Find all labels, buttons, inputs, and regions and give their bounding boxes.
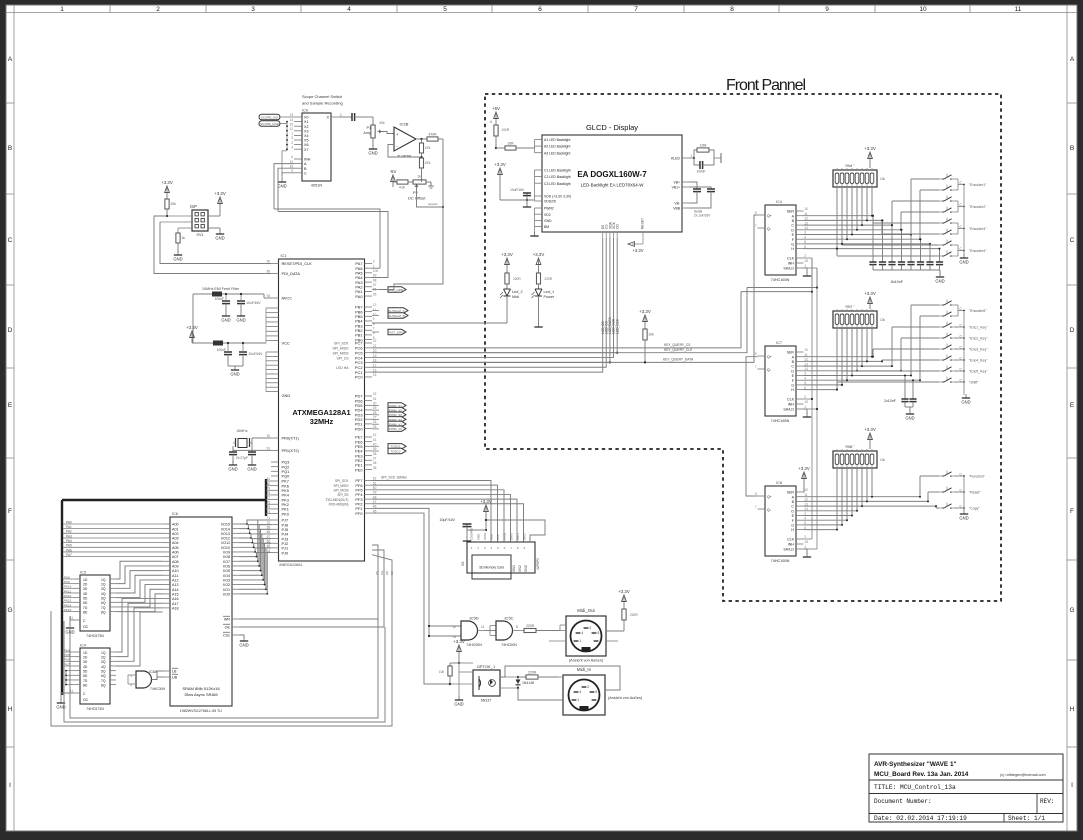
svg-text:C: C xyxy=(791,505,794,509)
svg-text:TOSC2: TOSC2 xyxy=(390,449,401,453)
MCU left VCC pin cluster xyxy=(266,307,279,309)
IC4 parallel input pins right xyxy=(796,210,804,212)
svg-text:1G: 1G xyxy=(380,570,384,575)
svg-text:31: 31 xyxy=(373,397,377,401)
svg-text:8Q: 8Q xyxy=(101,683,106,687)
serial data chain Q to SER xyxy=(746,357,758,496)
svg-text:1: 1 xyxy=(579,639,581,643)
resistor 4.0k to P2 xyxy=(397,180,408,184)
svg-text:5D: 5D xyxy=(83,669,88,673)
svg-text:3: 3 xyxy=(599,639,601,643)
svg-text:VB+: VB+ xyxy=(673,181,680,185)
ground P1 xyxy=(372,145,374,149)
WR OE long wires to MCU xyxy=(240,545,379,619)
svg-text:220R: 220R xyxy=(545,277,553,281)
svg-text:36: 36 xyxy=(373,461,377,465)
IC7 parallel input pins right xyxy=(796,351,804,353)
charge pump capacitors 2x1uF xyxy=(690,182,698,189)
svg-text:H: H xyxy=(791,528,794,532)
svg-text:X5: X5 xyxy=(304,139,309,143)
svg-text:GND: GND xyxy=(282,393,291,398)
svg-text:X0: X0 xyxy=(304,116,309,120)
svg-text:+3.3V: +3.3V xyxy=(798,466,810,471)
svg-text:10MHz EMI Ferrit Filter: 10MHz EMI Ferrit Filter xyxy=(202,287,240,291)
latch IC4 74HC573N box xyxy=(80,648,110,704)
svg-text:GND: GND xyxy=(247,466,256,471)
svg-text:+3.3V: +3.3V xyxy=(186,325,198,330)
svg-text:AVR-Synthesizer "WAVE 1": AVR-Synthesizer "WAVE 1" xyxy=(874,761,957,768)
svg-text:+3.3V: +3.3V xyxy=(453,639,465,644)
svg-text:IC4: IC4 xyxy=(776,200,782,204)
svg-text:D: D xyxy=(791,369,794,373)
svg-text:6: 6 xyxy=(291,155,293,159)
svg-text:4Q: 4Q xyxy=(101,665,106,669)
svg-text:3Q: 3Q xyxy=(101,660,106,664)
svg-text:CD/DAT3: CD/DAT3 xyxy=(470,528,474,540)
MCU right PB pins xyxy=(365,306,373,308)
svg-text:P2: P2 xyxy=(413,190,419,195)
switch common rail IC8 xyxy=(957,475,959,477)
svg-text:VDD: VDD xyxy=(490,534,494,540)
svg-text:LED HA: LED HA xyxy=(336,366,349,370)
SD card socket X3 xyxy=(467,542,535,573)
thick data bus PK xyxy=(62,499,266,501)
P2 DC offset potentiometer xyxy=(413,180,426,184)
svg-text:SPI_MOSI: SPI_MOSI xyxy=(332,351,348,355)
+5V backlight supply xyxy=(495,114,497,124)
svg-text:7: 7 xyxy=(634,6,638,13)
svg-text:6D: 6D xyxy=(83,601,88,605)
svg-text:CLK: CLK xyxy=(496,534,500,540)
svg-text:KEY_QUERY_DATA: KEY_QUERY_DATA xyxy=(663,357,694,361)
wire KEY_QUERY_CS xyxy=(372,292,741,348)
svg-text:25: 25 xyxy=(373,425,377,429)
svg-text:A07: A07 xyxy=(172,555,179,559)
latch IC3 outputs to SRAM A08-A15 staircase xyxy=(116,561,163,579)
svg-text:WR: WR xyxy=(224,618,230,622)
svg-text:IC4: IC4 xyxy=(80,644,86,648)
svg-text:SW2: SW2 xyxy=(518,565,522,572)
svg-text:A16: A16 xyxy=(172,597,179,601)
svg-text:(c) rolfdegen@hotmail.com: (c) rolfdegen@hotmail.com xyxy=(1000,773,1046,777)
svg-text:DC Offset: DC Offset xyxy=(408,196,426,201)
svg-text:X3: X3 xyxy=(304,129,309,133)
svg-text:REV:: REV: xyxy=(1040,798,1054,805)
IC9 control pins INH A B C xyxy=(294,158,302,160)
svg-text:PK7: PK7 xyxy=(64,662,70,666)
+3.3V for RN4 xyxy=(869,154,871,164)
svg-text:I/O7: I/O7 xyxy=(223,560,230,564)
svg-text:AUTELM_B: AUTELM_B xyxy=(388,314,404,318)
svg-text:41: 41 xyxy=(373,438,377,442)
svg-text:1k: 1k xyxy=(417,175,421,179)
MCU right PF pins xyxy=(365,480,373,482)
switches IC4 xyxy=(942,178,944,180)
svg-text:"Enc2_Key": "Enc2_Key" xyxy=(969,336,988,340)
svg-text:"Encoder4": "Encoder4" xyxy=(969,249,987,253)
svg-text:RESET: RESET xyxy=(641,218,645,229)
svg-text:GND: GND xyxy=(277,183,286,188)
GLCD bottom data pins xyxy=(602,232,604,238)
svg-text:OC: OC xyxy=(83,698,89,702)
svg-text:PA6: PA6 xyxy=(66,548,72,552)
svg-text:GND: GND xyxy=(239,642,248,647)
svg-text:SER: SER xyxy=(787,491,795,495)
switch feed verticals IC4 xyxy=(910,179,912,235)
svg-text:GND: GND xyxy=(173,256,182,261)
svg-text:32: 32 xyxy=(373,392,377,396)
svg-text:1: 1 xyxy=(60,6,64,13)
svg-text:"Enc4_Key": "Enc4_Key" xyxy=(969,358,988,362)
svg-text:A13: A13 xyxy=(172,583,179,587)
long wire MCU TXD to MIDI gates xyxy=(372,508,461,626)
resistor network RN4 xyxy=(833,170,877,187)
svg-text:10: 10 xyxy=(804,348,808,352)
svg-text:RESET/PDI_CLK: RESET/PDI_CLK xyxy=(282,261,313,266)
svg-text:15: 15 xyxy=(290,122,294,126)
svg-text:I/O12: I/O12 xyxy=(221,537,230,541)
svg-text:GND: GND xyxy=(959,259,968,264)
svg-text:A01: A01 xyxy=(172,527,179,531)
svg-text:16MHz: 16MHz xyxy=(236,429,248,433)
svg-text:G: G xyxy=(1069,607,1074,614)
shift register IC8 74HC165N box xyxy=(765,486,796,556)
capacitor C_vcc2 10uF xyxy=(239,351,247,353)
svg-text:+3.3V: +3.3V xyxy=(533,252,545,257)
svg-text:7: 7 xyxy=(755,365,757,369)
+3.3V SD supply xyxy=(485,507,487,517)
IC8 control pins xyxy=(796,538,804,540)
svg-text:10k: 10k xyxy=(880,177,886,181)
svg-text:UB: UB xyxy=(172,676,178,680)
MCU right PE pins xyxy=(365,436,373,438)
svg-text:X6: X6 xyxy=(304,143,309,147)
IC9 A B C wires to port xyxy=(274,164,294,209)
RN4 legs down to rows (reverse staircase) xyxy=(836,187,838,249)
svg-text:2x 1uF/16V: 2x 1uF/16V xyxy=(694,214,711,218)
GLCD left pins A1-A3 backlight xyxy=(535,139,543,141)
IC7 ground xyxy=(804,409,808,414)
svg-text:P1: P1 xyxy=(366,126,371,130)
svg-text:1D: 1D xyxy=(83,651,88,655)
svg-text:INH: INH xyxy=(788,543,795,547)
svg-text:220R: 220R xyxy=(513,277,521,281)
crystal load capacitors 2x27pF xyxy=(232,446,234,452)
svg-text:10µF/16V: 10µF/16V xyxy=(439,518,455,522)
svg-text:11: 11 xyxy=(373,308,377,312)
opto input wires xyxy=(459,662,473,664)
svg-text:A: A xyxy=(8,56,13,63)
svg-text:3: 3 xyxy=(597,698,599,702)
svg-text:H: H xyxy=(8,706,13,713)
svg-text:I/O2: I/O2 xyxy=(223,583,230,587)
svg-text:I/O9: I/O9 xyxy=(223,551,230,555)
latch IC3 ground xyxy=(70,620,74,625)
resistor R_pdi 1k xyxy=(177,228,179,233)
svg-text:8x10nF: 8x10nF xyxy=(891,280,904,284)
svg-text:C: C xyxy=(1070,237,1075,244)
svg-text:+3.3V: +3.3V xyxy=(501,252,513,257)
SRAM data pins IO15-IO0 xyxy=(232,523,240,525)
svg-text:74HC573N: 74HC573N xyxy=(86,634,104,638)
svg-text:Midi_Out: Midi_Out xyxy=(577,608,595,613)
svg-text:74HC573N: 74HC573N xyxy=(86,707,104,711)
SRAM address pins A00-A18 xyxy=(163,523,171,525)
feedback tap to inverting input xyxy=(388,145,422,158)
svg-text:I: I xyxy=(9,782,11,789)
svg-text:7D: 7D xyxy=(83,679,88,683)
svg-text:IC7: IC7 xyxy=(776,341,782,345)
svg-text:+3.3V: +3.3V xyxy=(618,589,630,594)
capacitor bank verticals IC7 xyxy=(904,376,906,400)
svg-text:97: 97 xyxy=(373,283,377,287)
svg-text:PK9: PK9 xyxy=(64,580,70,584)
svg-text:74HC165N: 74HC165N xyxy=(771,419,790,423)
svg-text:Front Pannel: Front Pannel xyxy=(726,77,806,94)
-5V supply arrow xyxy=(392,177,394,187)
svg-text:4Q: 4Q xyxy=(101,592,106,596)
svg-text:E: E xyxy=(8,402,13,409)
svg-text:4D: 4D xyxy=(83,665,88,669)
svg-text:26: 26 xyxy=(373,420,377,424)
IC8 parallel input pins right xyxy=(796,491,804,493)
svg-text:A18: A18 xyxy=(172,606,179,610)
svg-text:OE: OE xyxy=(225,626,231,630)
svg-text:47k: 47k xyxy=(425,146,431,150)
MIDI out right pin wires xyxy=(606,640,618,642)
latch IC4 ground xyxy=(61,693,74,700)
svg-text:10k: 10k xyxy=(880,318,886,322)
svg-text:2Q: 2Q xyxy=(101,655,106,659)
svg-text:"Shift": "Shift" xyxy=(969,380,979,384)
svg-text:"Encoder2": "Encoder2" xyxy=(969,205,987,209)
svg-text:11: 11 xyxy=(481,625,485,629)
svg-text:CD: CD xyxy=(616,224,620,229)
svg-text:+3.3V: +3.3V xyxy=(480,499,492,504)
svg-text:8Q: 8Q xyxy=(101,610,106,614)
svg-text:F: F xyxy=(1070,508,1074,515)
IC8 ground xyxy=(804,549,808,554)
svg-text:74HC165N: 74HC165N xyxy=(771,559,790,563)
IC9 unused input rail to GND xyxy=(286,122,288,151)
resistor 10k opto xyxy=(450,662,459,664)
ground for AVCC caps xyxy=(225,312,227,316)
NAND gate IC8A 74HC00N xyxy=(136,671,152,688)
svg-text:37: 37 xyxy=(373,456,377,460)
svg-text:INH: INH xyxy=(788,262,795,266)
svg-text:A3 LED Backlight: A3 LED Backlight xyxy=(544,151,570,155)
svg-text:1k: 1k xyxy=(181,236,185,240)
GLCD left pins VDD xyxy=(535,195,543,197)
bus taps to MCU PK pins xyxy=(266,480,271,482)
RN8 legs down to rows (reverse staircase) xyxy=(836,468,838,530)
svg-text:27: 27 xyxy=(373,415,377,419)
svg-text:1: 1 xyxy=(291,132,293,136)
RC network on KLED: 10M resistor xyxy=(694,150,697,158)
MIDI in wires xyxy=(558,676,563,678)
svg-text:SH/LD: SH/LD xyxy=(783,408,794,412)
svg-text:H: H xyxy=(791,247,794,251)
svg-text:2Q: 2Q xyxy=(101,582,106,586)
svg-text:GND: GND xyxy=(935,278,944,283)
svg-text:SCOPE_GND: SCOPE_GND xyxy=(260,122,280,126)
svg-text:IC3: IC3 xyxy=(80,571,86,575)
svg-text:PA4: PA4 xyxy=(66,539,72,543)
svg-text:MCU_Board Rev. 13a Jan. 2014: MCU_Board Rev. 13a Jan. 2014 xyxy=(874,771,969,778)
svg-text:F: F xyxy=(8,508,12,515)
svg-text:SPI_SCK: SPI_SCK xyxy=(334,342,349,346)
svg-text:D: D xyxy=(791,228,794,232)
ground for VCC caps xyxy=(228,365,243,367)
svg-text:LB: LB xyxy=(172,670,177,674)
svg-text:29: 29 xyxy=(373,406,377,410)
feedback resistor 47k upper xyxy=(419,143,423,153)
svg-text:6Q: 6Q xyxy=(101,601,106,605)
svg-text:PK4: PK4 xyxy=(64,648,70,652)
svg-text:6: 6 xyxy=(538,6,542,13)
svg-text:SPI_SS: SPI_SS xyxy=(337,493,348,497)
svg-text:4: 4 xyxy=(291,145,293,149)
svg-text:39: 39 xyxy=(373,447,377,451)
IC4 wire rows xyxy=(804,215,874,217)
svg-text:GND: GND xyxy=(215,235,224,240)
Front Pannel dashed boundary xyxy=(485,94,1001,601)
svg-text:A2 LED Backlight: A2 LED Backlight xyxy=(544,145,570,149)
svg-text:"Function": "Function" xyxy=(969,474,986,478)
svg-text:A03: A03 xyxy=(172,537,179,541)
svg-text:PE0: PE0 xyxy=(355,467,363,472)
svg-text:IC5D: IC5D xyxy=(469,616,478,621)
svg-text:GND: GND xyxy=(230,371,239,376)
svg-text:TL062P: TL062P xyxy=(397,154,411,159)
sqrwav net wire from P2 wiper xyxy=(417,188,444,207)
svg-text:X2: X2 xyxy=(304,125,309,129)
svg-text:I/O3: I/O3 xyxy=(223,579,230,583)
svg-text:H: H xyxy=(791,388,794,392)
IC4 control pins xyxy=(796,257,804,259)
IC4 ground xyxy=(804,268,808,273)
ferrite bead L1 xyxy=(212,292,222,297)
svg-text:15: 15 xyxy=(804,540,808,544)
MCU left PQ pins xyxy=(271,461,279,463)
gate output to SRAM LB UB xyxy=(152,671,164,680)
divider resistor 47k lower xyxy=(419,158,423,168)
svg-text:EA DOGXL160W-7: EA DOGXL160W-7 xyxy=(577,170,647,179)
svg-text:A: A xyxy=(1070,56,1075,63)
svg-text:SRAM 8Mb 512Kx16: SRAM 8Mb 512Kx16 xyxy=(182,686,220,691)
resistor 220R MIDI in xyxy=(518,676,526,678)
svg-text:10uF/16V: 10uF/16V xyxy=(246,301,261,305)
svg-text:SCOPE_SIG: SCOPE_SIG xyxy=(261,115,279,119)
GLCD display module box xyxy=(542,135,682,232)
svg-text:Sheet: 1/1: Sheet: 1/1 xyxy=(1008,815,1045,822)
svg-text:38: 38 xyxy=(373,452,377,456)
wire ISP pdi-data to MCU xyxy=(154,216,271,274)
svg-text:PA2: PA2 xyxy=(66,530,72,534)
svg-text:5: 5 xyxy=(595,690,597,694)
svg-text:10: 10 xyxy=(804,488,808,492)
latch IC4 input wires xyxy=(62,651,74,653)
svg-text:GND: GND xyxy=(454,701,463,706)
MCU left PJ pins xyxy=(271,519,279,521)
svg-text:PWR2: PWR2 xyxy=(544,207,554,211)
ISP +3.3V pin xyxy=(219,199,221,209)
resistor 10R backlight xyxy=(496,147,505,149)
svg-text:+3.3V: +3.3V xyxy=(161,180,173,185)
svg-text:1Q: 1Q xyxy=(101,651,106,655)
svg-text:VSS2: VSS2 xyxy=(503,532,507,540)
svg-text:PK8: PK8 xyxy=(64,575,70,579)
svg-text:SPI_SCK 16MHz: SPI_SCK 16MHz xyxy=(381,476,407,480)
svg-text:OC: OC xyxy=(83,625,89,629)
optocoupler +3.3V pullup xyxy=(458,647,460,657)
svg-text:GND: GND xyxy=(221,317,230,322)
svg-text:Midi: Midi xyxy=(512,295,519,299)
svg-text:OPTOK_1: OPTOK_1 xyxy=(477,664,496,669)
svg-text:"Encoder1": "Encoder1" xyxy=(969,183,987,187)
svg-text:RXD-MIDI(IN): RXD-MIDI(IN) xyxy=(329,502,349,506)
svg-text:SH/LD: SH/LD xyxy=(783,267,794,271)
svg-text:CMD: CMD xyxy=(476,534,480,540)
svg-text:LED-Backlight EA LED78X64-W: LED-Backlight EA LED78X64-W xyxy=(581,183,645,188)
svg-text:100nF: 100nF xyxy=(217,348,226,352)
svg-text:12: 12 xyxy=(373,303,377,307)
capacitor 10uF/16V GLCD supply xyxy=(526,193,528,200)
svg-text:"Reset": "Reset" xyxy=(969,490,981,494)
switch common rail IC7 xyxy=(957,305,959,316)
svg-text:SPI_MOSI: SPI_MOSI xyxy=(333,489,348,493)
svg-text:15: 15 xyxy=(373,373,377,377)
switch feed verticals IC7 xyxy=(910,305,912,376)
switches IC7 xyxy=(942,304,944,306)
NAND gate IC5D xyxy=(461,621,478,640)
svg-text:VBB: VBB xyxy=(673,207,681,211)
svg-text:X7: X7 xyxy=(304,148,309,152)
svg-text:VD2: VD2 xyxy=(544,213,551,217)
wire ISP reset to MCU xyxy=(160,222,271,264)
net label ovals at MCU right side xyxy=(388,287,406,292)
svg-text:6N137: 6N137 xyxy=(481,699,492,703)
svg-text:220R: 220R xyxy=(526,624,535,628)
svg-text:BM: BM xyxy=(544,225,549,229)
svg-text:GND: GND xyxy=(368,150,377,155)
svg-text:GND: GND xyxy=(959,515,968,520)
svg-text:Q+: Q+ xyxy=(767,495,772,499)
svg-text:A09: A09 xyxy=(172,565,179,569)
svg-text:+3.3V: +3.3V xyxy=(864,291,876,296)
svg-text:SPI_MISO: SPI_MISO xyxy=(333,484,349,488)
svg-text:DAT0: DAT0 xyxy=(509,533,513,540)
svg-text:LCD_CLK: LCD_CLK xyxy=(615,318,619,334)
P1 Amp potentiometer xyxy=(366,116,373,118)
svg-text:CLK: CLK xyxy=(787,398,795,402)
svg-text:VDD (+3.3V 3.3V): VDD (+3.3V 3.3V) xyxy=(544,195,571,199)
svg-text:4.0k: 4.0k xyxy=(399,186,405,190)
svg-text:4051N: 4051N xyxy=(311,184,322,188)
resistor R_rst 10k xyxy=(166,198,168,199)
svg-text:D: D xyxy=(791,509,794,513)
svg-text:GLCD - Display: GLCD - Display xyxy=(586,123,638,132)
svg-text:IC1: IC1 xyxy=(281,254,287,258)
svg-text:XMEGA128A1: XMEGA128A1 xyxy=(279,563,302,567)
MCU left pin AVCC xyxy=(271,297,279,299)
svg-text:10R: 10R xyxy=(507,141,514,145)
svg-text:10M: 10M xyxy=(700,143,707,147)
svg-text:I/O14: I/O14 xyxy=(221,527,230,531)
svg-text:PK14: PK14 xyxy=(64,603,72,607)
ferrite bead L2 xyxy=(213,341,223,346)
svg-text:SPI_MISO: SPI_MISO xyxy=(332,347,348,351)
